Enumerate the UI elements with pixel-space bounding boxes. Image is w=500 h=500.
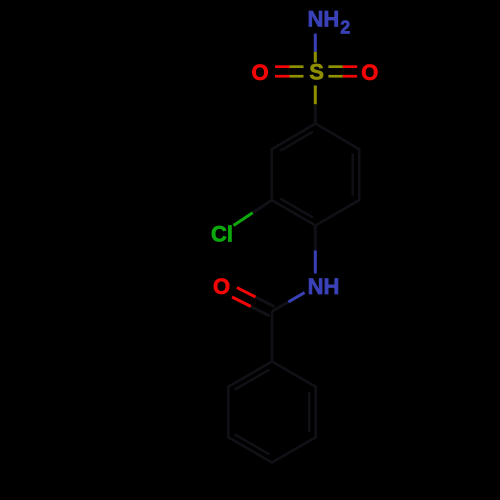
- benzene ring 1 inner double bond C3-C4: [280, 199, 313, 218]
- benzene ring 1 inner double bond C5-C6: [352, 154, 354, 196]
- wire N-S bond upper half (N side, blue): [314, 34, 317, 52]
- wire S=O left double bond lower line: [275, 75, 290, 78]
- wire C=O double bond line 1 (O side red then C side dark): [237, 288, 256, 298]
- wire C4-N bond lower half (N side, blue): [314, 251, 317, 274]
- svg-text:O: O: [252, 60, 269, 85]
- wire S=O right double bond lower line: [328, 75, 342, 78]
- svg-text:NH: NH: [308, 274, 340, 299]
- wire N-S bond lower half (S side, olive): [314, 52, 317, 63]
- wire C(=O)-ring2 bond (dark): [271, 311, 274, 361]
- wire S-C1 bond lower half (C side, dark): [314, 104, 317, 123]
- wire S-C1 bond upper half (S side, olive): [314, 86, 317, 105]
- wire N-C(=O) bond right half (N side, blue): [288, 293, 304, 302]
- svg-text:O: O: [361, 60, 378, 85]
- wire C4-N bond upper half (C side, dark): [314, 226, 317, 251]
- wire C3-Cl bond upper half (C side, dark): [253, 200, 272, 213]
- svg-text:S: S: [309, 60, 324, 85]
- wire C3-Cl bond lower half (Cl side, green): [234, 213, 253, 226]
- wire C=O double bond line 2 (O side red then C side dark): [232, 297, 251, 307]
- benzene ring 2 inner double bond V2-V3: [308, 392, 310, 432]
- svg-text:O: O: [213, 274, 230, 299]
- benzene ring 2 inner double bond V6-V1: [235, 370, 270, 390]
- wire S=O left double bond upper line: [275, 65, 290, 68]
- wire N-C(=O) bond left half (C side, dark): [272, 302, 288, 311]
- benzene ring 2 outline (carbon, near-black): [228, 362, 315, 463]
- benzene ring 1 outline (carbon, near-black): [272, 124, 359, 226]
- svg-text:Cl: Cl: [211, 222, 233, 247]
- benzene ring 1 inner double bond C1-C2: [280, 132, 313, 151]
- benzene ring 2 inner double bond V4-V5: [235, 434, 270, 454]
- wire S=O right double bond upper line: [328, 65, 342, 68]
